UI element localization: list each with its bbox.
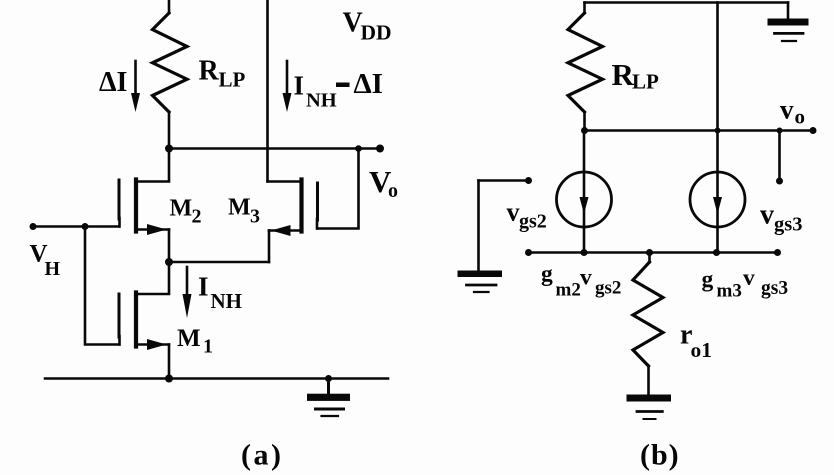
label v_o bbox=[780, 95, 805, 129]
node VH junction bbox=[82, 223, 89, 230]
ground (b bottom) bbox=[627, 395, 672, 420]
wire VH input bbox=[33, 225, 119, 228]
label (b) bbox=[640, 438, 680, 471]
terminal vo rail end bbox=[810, 127, 817, 134]
ground (b top right) bbox=[768, 3, 809, 42]
svg-text:g: g bbox=[702, 267, 714, 293]
terminal source rail left bbox=[525, 249, 532, 256]
svg-text:H: H bbox=[45, 258, 61, 280]
svg-text:v: v bbox=[760, 200, 774, 231]
current source gm3vgs3 bbox=[690, 3, 745, 253]
svg-text:o: o bbox=[388, 180, 398, 202]
wire output rail (a) bbox=[169, 147, 381, 150]
svg-text:3: 3 bbox=[250, 206, 260, 228]
svg-text:NH: NH bbox=[211, 289, 243, 313]
node ro1 top bbox=[646, 249, 653, 256]
ground (a) bbox=[307, 375, 350, 416]
svg-text:gs3: gs3 bbox=[774, 214, 802, 236]
resistor r_o1 bbox=[633, 253, 663, 396]
svg-text:gs2: gs2 bbox=[595, 278, 621, 299]
svg-text:m2: m2 bbox=[556, 280, 581, 301]
svg-text:2: 2 bbox=[192, 206, 202, 228]
current arrow dI bbox=[134, 61, 137, 96]
node common source junction bbox=[165, 258, 173, 266]
wire RLP bottom to output rail (a) bbox=[168, 112, 171, 149]
svg-text:I: I bbox=[294, 71, 305, 101]
wire VDD to RLP top (a) bbox=[168, 0, 171, 13]
terminal source rail right bbox=[774, 249, 781, 256]
wire output rail (b) bbox=[585, 129, 815, 132]
label I_NH bbox=[198, 272, 242, 314]
terminal V_H bbox=[30, 223, 37, 230]
svg-text:gs2: gs2 bbox=[519, 211, 547, 233]
ground (b left) bbox=[458, 271, 503, 293]
current arrow I_NH - dI bbox=[286, 61, 289, 96]
label (a) bbox=[241, 438, 283, 471]
wire top ground rail (b) bbox=[585, 1, 789, 4]
transistor M2 bbox=[119, 149, 169, 263]
svg-text:LP: LP bbox=[632, 70, 659, 94]
wire vo port stub bbox=[778, 131, 781, 180]
label V_o bbox=[369, 164, 398, 202]
wire M3 gate to output rail bbox=[318, 149, 359, 229]
wire vgs2 gate port bbox=[479, 179, 528, 182]
label V_DD bbox=[343, 8, 392, 45]
label v_gs2 bbox=[507, 198, 547, 233]
svg-text:(a): (a) bbox=[241, 438, 283, 471]
svg-text:v: v bbox=[507, 198, 520, 227]
node gm3 top junction bbox=[715, 128, 721, 134]
label V_H bbox=[30, 241, 61, 281]
svg-text:ΔI: ΔI bbox=[99, 67, 127, 98]
wire source rail (b) bbox=[529, 251, 778, 254]
svg-text:ΔI: ΔI bbox=[354, 68, 383, 100]
label R_LP (a) bbox=[199, 56, 246, 92]
svg-text:R: R bbox=[199, 56, 220, 87]
svg-text:v: v bbox=[780, 95, 794, 125]
svg-text:I: I bbox=[198, 272, 209, 302]
wire ground rail (a) bbox=[45, 377, 388, 380]
resistor R_LP (a) bbox=[153, 13, 188, 112]
wire vgs2 to ground bbox=[477, 181, 480, 272]
label I_NH - dI bbox=[294, 68, 383, 112]
svg-text:DD: DD bbox=[361, 21, 392, 45]
svg-text:LP: LP bbox=[219, 68, 246, 92]
svg-text:o: o bbox=[795, 105, 806, 129]
label R_LP (b) bbox=[612, 57, 660, 94]
svg-text:M: M bbox=[177, 325, 201, 352]
transistor M3 bbox=[268, 180, 318, 263]
terminal vgs2 bbox=[525, 177, 532, 184]
node vo stub junction bbox=[777, 128, 783, 134]
svg-text:g: g bbox=[541, 261, 553, 287]
node RLP / M2 drain junction bbox=[165, 145, 173, 153]
current source gm2vgs2 bbox=[557, 131, 612, 253]
node gm3 bottom bbox=[713, 249, 720, 256]
svg-text:1: 1 bbox=[203, 336, 213, 358]
label r_o1 bbox=[680, 320, 712, 363]
wire VH to M1 gate bbox=[85, 227, 119, 345]
svg-text:gs3: gs3 bbox=[761, 278, 788, 299]
label M2 bbox=[170, 196, 202, 228]
svg-text:(b): (b) bbox=[640, 438, 680, 471]
svg-text:M: M bbox=[170, 196, 193, 222]
terminal vo port bbox=[776, 178, 783, 185]
terminal Vo bbox=[376, 145, 384, 153]
label M3 bbox=[228, 195, 260, 228]
resistor R_LP (b) bbox=[568, 3, 603, 131]
label dI bbox=[99, 67, 127, 98]
label g_m2 v_gs2 bbox=[541, 261, 621, 301]
node RLP bottom junction (b) bbox=[581, 127, 588, 134]
svg-text:o1: o1 bbox=[691, 338, 713, 362]
label M1 bbox=[177, 325, 213, 358]
node M1 source junction bbox=[165, 375, 173, 383]
current arrow I_NH bbox=[186, 267, 189, 298]
label g_m3 v_gs3 bbox=[702, 265, 789, 302]
wire VDD to M3 drain bbox=[266, 0, 269, 182]
svg-text:NH: NH bbox=[306, 90, 337, 112]
svg-text:v: v bbox=[580, 265, 592, 291]
wire common source rail (a) bbox=[169, 261, 269, 264]
node gm2 bottom bbox=[581, 249, 588, 256]
svg-text:v: v bbox=[743, 265, 755, 291]
label v_gs3 bbox=[760, 200, 802, 236]
svg-text:m3: m3 bbox=[717, 281, 742, 302]
node M3 gate junction bbox=[355, 145, 362, 152]
transistor M1 bbox=[119, 262, 169, 379]
svg-text:M: M bbox=[228, 195, 251, 221]
